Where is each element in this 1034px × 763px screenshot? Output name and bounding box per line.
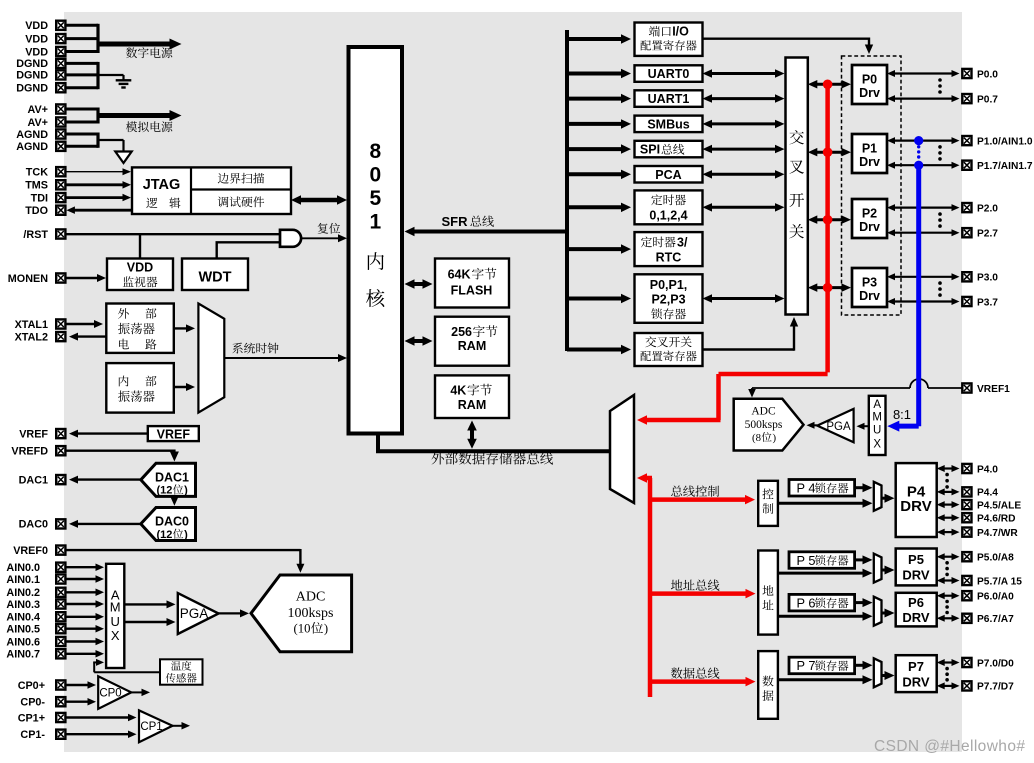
wire P4 DRV to pin P4.0: [942, 467, 955, 469]
wire P7 DRV to pin P7.0/D0: [942, 661, 955, 663]
svg-text:3/: 3/: [677, 235, 688, 249]
wire P1 Drv to pin P1.7/AIN1.7: [892, 164, 955, 166]
wire P4 DRV to pin P4.7/WR: [942, 531, 955, 533]
svg-text:Drv: Drv: [859, 220, 880, 234]
temperature sensor box 温度传感器: [160, 659, 203, 684]
pin AIN0.7: [56, 649, 65, 658]
svg-text:VDD: VDD: [127, 261, 153, 275]
wire P4 DRV to pin P4.4: [942, 491, 955, 493]
pin P3.0: [962, 272, 971, 281]
P6 DRV box: [896, 593, 937, 627]
svg-text:AIN0.2: AIN0.2: [6, 587, 40, 599]
wire AV+ bus: [65, 108, 98, 111]
svg-text:P4.5/ALE: P4.5/ALE: [977, 500, 1021, 511]
wire PGA to ADC0: [219, 612, 244, 614]
wire SFR bus tap to uart1: [567, 97, 625, 101]
svg-text:RTC: RTC: [656, 250, 682, 264]
wire VREF0 to ADC0: [65, 549, 300, 551]
svg-text:TMS: TMS: [25, 180, 48, 192]
svg-text:8:1: 8:1: [893, 407, 911, 422]
pin CP1+: [56, 713, 65, 722]
svg-text:P2.7: P2.7: [977, 229, 998, 240]
control box 控制: [758, 481, 778, 526]
svg-text:Drv: Drv: [859, 289, 880, 303]
WDT box: [182, 259, 248, 291]
wire SFR bus tap to spi: [567, 147, 625, 151]
svg-text:DAC0: DAC0: [19, 519, 48, 531]
wire peripheral to crossbar double arrow: [708, 173, 779, 176]
data bus wire 数据总线: [650, 679, 750, 684]
pin AIN0.3: [56, 599, 65, 608]
svg-text:PCA: PCA: [655, 168, 681, 182]
pin VREF0: [56, 546, 65, 555]
pin DAC0: [56, 519, 65, 528]
svg-text:DGND: DGND: [16, 83, 48, 95]
svg-text:CP1-: CP1-: [20, 729, 45, 741]
svg-text:TCK: TCK: [26, 167, 48, 179]
wire AMUX to PGA (ADC1): [861, 425, 869, 427]
P4 latch box P4锁存器: [789, 480, 855, 497]
bus control wire 总线控制: [650, 497, 749, 502]
svg-text:P4.6/RD: P4.6/RD: [977, 514, 1016, 525]
svg-text:SFR: SFR: [442, 214, 469, 229]
svg-text:P5.0/A8: P5.0/A8: [977, 553, 1014, 564]
red junction dot: [823, 80, 833, 90]
svg-text:P 7: P 7: [797, 658, 816, 673]
svg-text:CP0: CP0: [99, 688, 121, 700]
8051 core box 8051内核: [349, 47, 403, 434]
address box 地址: [758, 551, 778, 635]
P5 DRV box: [896, 549, 937, 586]
wire ext osc to mux: [174, 327, 190, 329]
svg-text:(8: (8: [752, 432, 761, 444]
svg-text:ADC: ADC: [751, 406, 776, 418]
svg-text:Drv: Drv: [859, 86, 880, 100]
wire P0 Drv to pin P0.7: [892, 97, 955, 99]
svg-text:P3.0: P3.0: [977, 273, 998, 284]
wire MONEN: [65, 277, 100, 279]
ellipsis dots P1: [938, 145, 942, 149]
pin XTAL2: [56, 332, 65, 341]
pin VREFD: [56, 446, 65, 455]
pin AIN0.0: [56, 563, 65, 572]
VREF box: [148, 426, 199, 441]
pin DGND (2): [56, 70, 65, 79]
wire port I/O config to port drivers: [703, 38, 870, 40]
svg-text:): ): [184, 485, 188, 497]
svg-text:P5: P5: [908, 552, 924, 567]
pin P5.7/A 15: [962, 576, 971, 585]
wire DGND bus: [65, 62, 98, 65]
blue analog input wire from P1 pins to AMUX: [914, 136, 923, 145]
svg-text:P1.0/AIN1.0: P1.0/AIN1.0: [977, 136, 1033, 147]
wire SFR bus tap to latch: [567, 297, 625, 301]
wire JTAG to core (thick double arrow): [297, 198, 341, 203]
wire TMS: [65, 183, 126, 186]
svg-text:DAC1: DAC1: [155, 470, 189, 484]
svg-text:TDO: TDO: [25, 205, 48, 217]
P5 mux: [874, 554, 882, 583]
svg-text:AGND: AGND: [16, 129, 48, 141]
svg-text:VDD: VDD: [25, 46, 48, 58]
wire peripheral to crossbar double arrow: [708, 122, 779, 125]
red junction dot: [823, 283, 833, 293]
svg-text:AIN0.1: AIN0.1: [6, 574, 40, 586]
wire SFR bus tap to tmr: [567, 205, 625, 209]
svg-text:P4.4: P4.4: [977, 488, 998, 499]
pin DGND (3): [56, 83, 65, 92]
svg-text:P3: P3: [862, 276, 877, 290]
JTAG logic box: [132, 167, 291, 214]
svg-text:P5.7/A 15: P5.7/A 15: [977, 576, 1022, 587]
P6 latch box P6锁存器: [789, 594, 855, 611]
pin TDI: [56, 193, 65, 202]
wire peripheral to crossbar double arrow: [708, 148, 779, 151]
svg-text:RAM: RAM: [458, 339, 486, 353]
pin MONEN: [56, 273, 65, 282]
svg-text:XTAL2: XTAL2: [15, 331, 48, 343]
wire AGND bus: [65, 133, 98, 136]
svg-text:RAM: RAM: [458, 398, 486, 412]
debug hardware label 调试硬件: [218, 196, 229, 207]
pin AV+ (2): [56, 117, 65, 126]
DAC1 block (12位): [141, 463, 196, 496]
wire CP0+: [65, 684, 91, 686]
pin P0.7: [962, 94, 971, 103]
svg-text:DRV: DRV: [902, 568, 930, 583]
svg-text:): ): [184, 529, 188, 541]
wire SFR bus tap to uart0: [567, 72, 625, 76]
wire DAC0 to pin: [74, 523, 141, 525]
pin AIN0.5: [56, 624, 65, 633]
pin P4.6/RD: [962, 513, 971, 522]
address bus wire 地址总线: [650, 591, 750, 596]
RAM 4K box 4K字节RAM: [435, 375, 509, 418]
red crossbar bus vertical wire: [825, 84, 830, 372]
pin CP0-: [56, 697, 65, 706]
wire TDI: [65, 196, 126, 199]
red wire to memory mux (upper): [719, 372, 828, 377]
pin AIN0.1: [56, 574, 65, 583]
svg-text:XTAL1: XTAL1: [15, 319, 48, 331]
wire crossbar to P3 Drv double arrow: [814, 286, 846, 289]
svg-text:VDD: VDD: [25, 33, 48, 45]
pin P4.4: [962, 487, 971, 496]
svg-text:AGND: AGND: [16, 141, 48, 153]
svg-text:(10: (10: [294, 622, 311, 636]
svg-text:5: 5: [369, 187, 381, 210]
AMUX box 8:1 (ADC1): [869, 396, 886, 455]
wire peripheral to crossbar double arrow: [708, 206, 779, 209]
P7 DRV box: [896, 655, 937, 692]
wire P4 latch to mux: [855, 486, 867, 489]
wire P5 latch to mux: [855, 558, 867, 561]
svg-text:P4.7/WR: P4.7/WR: [977, 528, 1018, 539]
svg-text:64K: 64K: [448, 268, 471, 282]
wire AMUX to PGA (1): [124, 603, 170, 605]
svg-text:VREF: VREF: [157, 427, 191, 441]
svg-text:X: X: [873, 438, 881, 450]
wire core-FLASH double arrow: [411, 282, 427, 286]
svg-text:AIN0.0: AIN0.0: [6, 562, 40, 574]
svg-text:0: 0: [369, 164, 381, 187]
wire int osc to mux: [174, 386, 190, 388]
svg-text:P4.0: P4.0: [977, 464, 998, 475]
external memory interface mux: [610, 395, 634, 503]
svg-text:FLASH: FLASH: [451, 284, 493, 298]
wire P2 Drv to pin P2.0: [892, 207, 955, 209]
wire P7 latch to mux: [855, 664, 867, 667]
clock mux: [198, 304, 224, 413]
wire VREFD to DAC1: [65, 450, 174, 452]
ellipsis dots P6: [945, 600, 949, 604]
svg-text:P1.7/AIN1.7: P1.7/AIN1.7: [977, 161, 1033, 172]
wire VREF box to pin: [74, 432, 147, 434]
wire P6 mux to P6 DRV: [882, 612, 888, 615]
svg-text:A: A: [873, 399, 881, 411]
wire CP1+: [65, 716, 131, 718]
pin P7.7/D7: [962, 681, 971, 690]
P1 Drv box: [852, 134, 887, 173]
analog power arrow 模拟电源: [98, 113, 174, 118]
wire CP0 output: [131, 691, 145, 693]
crossbar box 交叉开关: [786, 58, 808, 315]
svg-text:500ksps: 500ksps: [745, 419, 783, 431]
AMUX box (analog mux): [106, 564, 124, 668]
P4 DRV box: [896, 463, 937, 537]
wire AMUX to PGA (2): [124, 621, 170, 623]
svg-text:(12: (12: [157, 485, 173, 497]
P6 mux: [874, 597, 882, 626]
pin P4.7/WR: [962, 528, 971, 537]
svg-text:VREF: VREF: [19, 428, 48, 440]
svg-text:AIN0.6: AIN0.6: [6, 636, 40, 648]
wire peripheral to crossbar double arrow: [708, 97, 779, 100]
pin VDD (1): [56, 21, 65, 30]
wire DAC1 to pin: [74, 478, 141, 480]
svg-text:): ): [324, 622, 328, 636]
wire P2 Drv to pin P2.7: [892, 232, 955, 234]
PGA amplifier (ADC1): [817, 409, 853, 442]
svg-text:DGND: DGND: [16, 70, 48, 82]
svg-text:100ksps: 100ksps: [288, 606, 334, 621]
svg-text:P 4: P 4: [797, 481, 816, 496]
pin P1.7/AIN1.7: [962, 161, 971, 170]
system clock wire 系统时钟: [224, 357, 341, 359]
svg-text:UART0: UART0: [648, 67, 690, 81]
wire SFR bus tap to portio: [567, 37, 625, 41]
wire DAC1 to DAC0: [173, 497, 175, 500]
FLASH memory box 64K字节FLASH: [435, 259, 509, 308]
svg-text:CP0-: CP0-: [20, 697, 45, 709]
svg-text:VREF1: VREF1: [977, 384, 1010, 395]
red junction dot: [823, 147, 833, 157]
ellipsis dots P5: [945, 561, 949, 565]
wire P3 Drv to pin P3.7: [892, 300, 955, 302]
pin TDO: [56, 206, 65, 215]
ellipsis dots P7: [945, 667, 949, 671]
ellipsis dots P2: [938, 212, 942, 216]
wire crossbar config to crossbar: [703, 348, 795, 350]
digital ground symbol: [116, 79, 132, 81]
pin AIN0.2: [56, 588, 65, 597]
svg-text:AIN0.5: AIN0.5: [6, 624, 40, 636]
wire data box to P7 mux: [778, 678, 867, 681]
svg-text:P6: P6: [908, 595, 924, 610]
wire SFR bus tap to xbarcfg: [567, 348, 625, 352]
pin P0.0: [962, 69, 971, 78]
wire AIN0.7 to AMUX: [65, 653, 99, 655]
pin AIN0.6: [56, 637, 65, 646]
svg-text:P0,P1,: P0,P1,: [650, 278, 688, 292]
P7 latch box P7锁存器: [789, 657, 855, 674]
svg-text:4K: 4K: [450, 384, 466, 398]
svg-text:P7.7/D7: P7.7/D7: [977, 682, 1014, 693]
svg-text:X: X: [111, 628, 120, 643]
svg-text:P2: P2: [862, 207, 877, 221]
wire AIN0.4 to AMUX: [65, 616, 99, 618]
wire core-RAM double arrow: [411, 339, 427, 343]
svg-text:/RST: /RST: [23, 229, 48, 241]
DAC0 block (12位): [141, 508, 196, 541]
wire SFR bus tap to smbus: [567, 122, 625, 126]
UART1 box: [635, 90, 703, 107]
svg-text:AIN0.7: AIN0.7: [6, 649, 40, 661]
VDD monitor box 监视器: [107, 259, 173, 291]
svg-text:CP0+: CP0+: [18, 680, 45, 692]
wire peripheral to crossbar double arrow: [708, 72, 779, 75]
wire AIN0.3 to AMUX: [65, 603, 99, 605]
pin P2.7: [962, 228, 971, 237]
svg-text:U: U: [111, 614, 120, 629]
wire P1 Drv to pin P1.0/AIN1.0: [892, 140, 955, 142]
svg-text:CP1: CP1: [140, 721, 162, 733]
ADC1 block ADC 500ksps (8位): [734, 399, 804, 451]
wire crossbar to P0 Drv double arrow: [814, 83, 846, 86]
svg-text:P7.0/D0: P7.0/D0: [977, 658, 1014, 669]
pin /RST: [56, 229, 65, 238]
UART0 box: [635, 65, 703, 82]
svg-text:ADC: ADC: [296, 590, 326, 605]
svg-text:0,1,2,4: 0,1,2,4: [649, 209, 687, 223]
analog ground symbol: [115, 152, 131, 164]
wire XTAL1: [65, 323, 97, 325]
external data memory bus wire 外部数据存储器总线: [376, 434, 380, 452]
wire CP1 output: [173, 725, 185, 727]
pin XTAL1: [56, 319, 65, 328]
pin VDD (2): [56, 34, 65, 43]
svg-text:AV+: AV+: [27, 117, 48, 129]
wire TCK: [65, 171, 126, 173]
wire control box to P4 mux: [778, 502, 867, 505]
wire PGA to ADC1: [811, 424, 817, 426]
pin P3.7: [962, 297, 971, 306]
svg-text:AIN0.3: AIN0.3: [6, 599, 40, 611]
pin P1.0/AIN1.0: [962, 136, 971, 145]
reset label 复位: [318, 223, 329, 234]
wire AIN0.0 to AMUX: [65, 566, 99, 568]
svg-text:AIN0.4: AIN0.4: [6, 612, 40, 624]
svg-text:P7: P7: [908, 659, 924, 674]
svg-text:P2.0: P2.0: [977, 203, 998, 214]
wire P4 DRV to pin P4.6/RD: [942, 517, 955, 519]
data box 数据: [758, 651, 778, 719]
P0 Drv box: [852, 65, 887, 104]
svg-text:MONEN: MONEN: [8, 273, 48, 285]
svg-text:P 5: P 5: [797, 553, 816, 568]
red bus control tree vertical wire: [648, 478, 653, 697]
pin DGND (1): [56, 59, 65, 68]
wire P0 Drv to pin P0.0: [892, 72, 955, 74]
svg-text:VREFD: VREFD: [11, 446, 48, 458]
wire P7 DRV to pin P7.7/D7: [942, 685, 955, 687]
pin P2.0: [962, 203, 971, 212]
peripheral bus vertical wire: [565, 30, 569, 351]
pin P6.0/A0: [962, 591, 971, 600]
wire P6 latch to mux: [855, 601, 867, 604]
reset AND gate: [280, 230, 301, 247]
wire crossbar to P2 Drv double arrow: [814, 218, 846, 221]
wire VDD monitor to /RST line: [139, 233, 141, 258]
svg-text:U: U: [873, 424, 881, 436]
svg-text:P3.7: P3.7: [977, 297, 998, 308]
svg-text:Drv: Drv: [859, 155, 880, 169]
P3 Drv box: [852, 268, 887, 307]
timers 0,1,2,4 box 定时器: [635, 190, 703, 224]
P5 latch box P5锁存器: [789, 552, 855, 569]
svg-text:JTAG: JTAG: [143, 177, 181, 193]
wire crossbar to P1 Drv double arrow: [814, 151, 846, 154]
SFR bus wire SFR总线: [411, 230, 568, 234]
svg-text:DAC1: DAC1: [19, 474, 48, 486]
wire CP0-: [65, 701, 91, 703]
svg-text:M: M: [110, 600, 121, 615]
svg-text:P6.0/A0: P6.0/A0: [977, 592, 1014, 603]
wire P6 DRV to pin P6.7/A7: [942, 617, 955, 619]
svg-text:UART1: UART1: [648, 92, 690, 106]
boundary scan label 边界扫描: [218, 173, 229, 184]
P2 Drv box: [852, 199, 887, 238]
svg-text:VREF0: VREF0: [13, 545, 48, 557]
wire WDT to gate: [215, 242, 217, 258]
wire VDD bus: [65, 24, 98, 27]
port I/O config registers box 端口I/O配置寄存器: [635, 23, 703, 56]
wire CP1-: [65, 733, 131, 735]
svg-text:M: M: [872, 412, 882, 424]
wire P7 mux to P7 DRV: [882, 674, 888, 677]
pin VREF: [56, 429, 65, 438]
SMBus box: [635, 116, 703, 133]
internal oscillator box 内部振荡器: [106, 363, 174, 413]
svg-text:(12: (12: [157, 529, 173, 541]
pin AGND (2): [56, 142, 65, 151]
red junction dot: [823, 215, 833, 225]
svg-text:P1: P1: [862, 142, 877, 156]
red wire into memory mux (lower): [643, 476, 652, 481]
pin TCK: [56, 167, 65, 176]
P7 mux: [874, 658, 882, 687]
svg-text:DRV: DRV: [902, 610, 930, 625]
pin P4.5/ALE: [962, 500, 971, 509]
wire P5 mux to P5 DRV: [882, 569, 888, 572]
comparator CP0: [98, 676, 131, 709]
svg-text:CSDN @#Hellowho#: CSDN @#Hellowho#: [874, 738, 1025, 755]
pin VDD (3): [56, 47, 65, 56]
wire P4 mux to P4 DRV: [882, 497, 888, 500]
svg-text:P6.7/A7: P6.7/A7: [977, 614, 1014, 625]
wire AIN0.5 to AMUX: [65, 628, 99, 630]
svg-text:PGA: PGA: [180, 606, 209, 621]
